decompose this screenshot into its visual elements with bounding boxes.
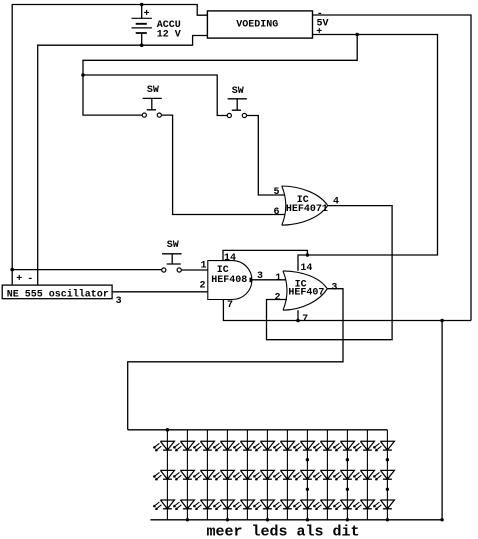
junction battery plus node [140,3,144,7]
junction column node [386,458,389,461]
junction NE555 plus branch [10,268,14,272]
wire 5V minus rail to ground bus [313,15,472,321]
svg-text:meer leds als dit: meer leds als dit [207,524,360,539]
junction SW2 feed branch [81,73,85,77]
svg-text:7: 7 [302,314,308,325]
svg-text:14: 14 [224,253,236,264]
svg-text:HEF407: HEF407 [288,288,324,299]
svg-text:+: + [144,9,150,20]
svg-text:3: 3 [331,282,337,293]
wire battery plus to VOEDING input [142,5,208,16]
led D17 [253,470,274,480]
power supply VOEDING [207,11,312,38]
svg-text:1: 1 [201,261,207,272]
junction +5V branch [355,33,359,37]
oscillator NE 555 [2,285,112,300]
wire branch to switch SW2 [83,75,227,116]
led D12 [213,500,234,510]
junction column node [386,488,389,491]
junction column node [306,458,309,461]
led D1 [153,441,174,451]
junction OR2 pin 7 ground [296,319,300,323]
svg-text:SW: SW [147,85,159,96]
led D27 [313,500,334,510]
led D34 [373,441,394,451]
led D32 [353,470,374,480]
wire LED column 3 [206,430,208,520]
led D30 [333,500,354,510]
svg-text:2: 2 [200,281,206,292]
led D18 [253,500,274,510]
and-gate U2 IC HEF408 [200,253,264,311]
wire LED column 12 [386,430,388,520]
led D4 [173,441,194,451]
or-gate U1 IC HEF4071 [274,186,340,225]
junction VDD pin14 node [306,253,310,257]
junction column node [346,458,349,461]
led D26 [313,470,334,480]
junction cathode bus node [186,518,189,521]
wire 5V plus rail to VDD line [307,35,437,256]
junction battery minus node [140,43,144,47]
wire OR1 pin 4 output to OR2 pin 2 [267,206,393,340]
led D21 [273,500,294,510]
led D8 [193,470,214,480]
led D23 [293,470,314,480]
led D3 [153,500,174,510]
led D6 [173,500,194,510]
wire battery minus to NE555 minus [38,45,142,285]
svg-text:HEF408: HEF408 [211,275,247,286]
wire LED column 9 [326,430,328,520]
led D35 [373,470,394,480]
junction ground branch node [440,319,444,323]
led D7 [193,441,214,451]
led D13 [233,441,254,451]
led D16 [253,441,274,451]
svg-text:12 V: 12 V [157,29,181,40]
led D11 [213,470,234,480]
or-gate U3 IC HEF407 [275,263,338,325]
led D36 [373,500,394,510]
svg-text:7: 7 [227,300,233,311]
battery ACCU 12 V [132,5,181,46]
led D31 [353,441,374,451]
switch SW3 [162,240,182,272]
led D24 [293,500,314,510]
svg-text:SW: SW [167,240,179,251]
switch SW2 [227,86,247,118]
wire SW1 to OR1 pin 6 [161,115,284,214]
wire battery minus to VOEDING input [142,36,208,46]
svg-text:5: 5 [274,187,280,198]
junction cathode bus node [306,518,309,521]
led D9 [193,500,214,510]
junction cathode bus node [226,518,229,521]
svg-text:3: 3 [257,271,263,282]
led D20 [273,470,294,480]
junction LED anode bus node [166,428,170,432]
svg-text:VOEDING: VOEDING [236,20,278,31]
wire LED column 7 [286,430,288,520]
wire LED column 6 [266,430,268,520]
wire SW3 to AND gate pin 1 [181,269,208,271]
wire LED column 4 [226,430,228,520]
wire LED column 8 [306,430,308,520]
wire NE555 pin 3 to AND gate pin 2 [112,291,208,293]
junction column node [306,488,309,491]
svg-text:3: 3 [116,296,122,307]
led D28 [333,441,354,451]
wire LED column 5 [246,430,248,520]
svg-text:+: + [16,274,22,285]
led D25 [313,441,334,451]
switch SW1 [142,85,162,117]
svg-text:1: 1 [275,273,281,284]
led D2 [153,470,174,480]
svg-text:NE 555 oscillator: NE 555 oscillator [7,288,109,300]
wire OR2 pin 7 to ground bus [297,310,299,320]
led D15 [233,500,254,510]
svg-text:HEF4071: HEF4071 [286,204,328,215]
wire LED column 2 [186,430,188,520]
svg-text:6: 6 [274,207,280,218]
svg-text:+: + [316,27,322,38]
wire LED column 10 [346,430,348,520]
led D14 [233,470,254,480]
svg-text:2: 2 [275,292,281,303]
svg-text:-: - [27,274,33,285]
wire SW2 to OR1 pin 5 [246,116,284,196]
wire LED cathode bus [150,519,442,521]
junction cathode bus node [346,518,349,521]
svg-text:14: 14 [300,263,312,274]
wire VDD to OR2 pin 14 [298,255,307,271]
led D5 [173,470,194,480]
wire AND pin 7 to ground bus [223,300,471,321]
junction cathode bus node [440,518,443,521]
led D29 [333,470,354,480]
wire LED anode bus [128,429,388,431]
junction cathode bus node [266,518,269,521]
wire VDD to AND gate pin 14 [223,250,307,260]
wire battery plus to left rail and NE555 plus [12,5,142,286]
wire LED column 11 [366,430,368,520]
wire +5V branch to switch SW1 [83,35,357,116]
led D33 [353,500,374,510]
svg-text:SW: SW [232,86,244,97]
led D22 [293,441,314,451]
wire OR2 pin 3 output to LED anode bus [128,289,343,430]
wire ground branch down to LED cathode bus [441,321,443,520]
wire LED column 1 [166,430,168,520]
led D19 [273,441,294,451]
junction cathode bus node [386,518,389,521]
led D10 [213,441,234,451]
svg-text:4: 4 [333,197,339,208]
wire NE555 plus rail to switch SW3 [12,269,162,271]
junction column node [346,488,349,491]
wire AND pin 3 to OR2 pin 1 [252,279,286,281]
